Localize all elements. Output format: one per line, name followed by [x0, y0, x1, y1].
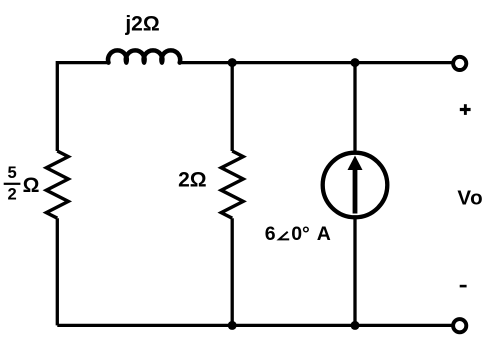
wire middle vertical top	[231, 63, 234, 151]
svg-text:Vo: Vo	[457, 187, 483, 210]
junction node top middle	[228, 58, 237, 67]
svg-text:6: 6	[265, 223, 276, 245]
resistor R2 2 ohm zigzag	[221, 151, 243, 218]
junction node top right	[351, 58, 360, 67]
svg-text:j2Ω: j2Ω	[124, 13, 159, 36]
wire left vertical bottom	[56, 218, 59, 325]
wire top from inductor to output terminal	[180, 61, 452, 64]
output terminal bottom	[453, 319, 466, 332]
output terminal top	[453, 57, 466, 70]
wire current-source vertical bottom	[353, 217, 356, 326]
inductor L1 j2ohm coil	[108, 50, 180, 62]
junction node bottom middle	[228, 321, 237, 330]
svg-text:2: 2	[7, 184, 16, 203]
svg-text:0°: 0°	[291, 223, 310, 245]
angle symbol of source label	[279, 232, 289, 240]
current source arrowhead	[348, 156, 363, 171]
junction node bottom right	[351, 321, 360, 330]
current source I1 circle	[323, 153, 388, 218]
svg-text:Ω: Ω	[23, 174, 40, 197]
current source arrow shaft	[353, 169, 358, 214]
wire middle vertical bottom	[231, 218, 234, 325]
label plus	[460, 108, 471, 111]
label minus	[460, 285, 467, 288]
svg-text:5: 5	[7, 163, 16, 182]
resistor R1 5/2 ohm zigzag	[46, 151, 68, 218]
wire bottom horizontal	[57, 324, 452, 327]
wire current-source vertical top	[353, 63, 356, 154]
svg-text:A: A	[317, 223, 331, 245]
svg-text:2Ω: 2Ω	[178, 168, 207, 191]
wire top-left horizontal segment	[57, 63, 108, 151]
label 5/2 fraction bar	[4, 183, 21, 185]
